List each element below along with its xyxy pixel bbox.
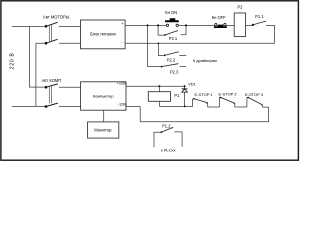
breaker QF1 pole2 blade (46, 39, 58, 43)
relay contact P1.2 dot (160, 131, 162, 133)
wire monitor stub (103, 110, 105, 122)
breaker QF2 pole2 blade (46, 103, 58, 106)
svg-text:+12В: +12В (117, 80, 127, 85)
switch E-STOP 2 pivot dot (220, 97, 222, 99)
relay contact P1.1 dot (252, 24, 254, 26)
svg-text:P2: P2 (237, 5, 243, 10)
relay contact P1.2 right terminal (174, 132, 182, 147)
relay contact P2.2 blade (165, 52, 179, 56)
breaker QF1 pole1 contact dot (45, 25, 48, 28)
wire computer -12V to return (126, 105, 140, 107)
border frame (1, 1, 299, 160)
svg-text:P2.1: P2.1 (169, 36, 178, 41)
svg-text:P1.2: P1.2 (162, 124, 171, 129)
relay contact P1.2 left terminal (154, 132, 160, 147)
relay contact P2.1 blade (165, 30, 178, 35)
svg-text:P2.3: P2.3 (170, 70, 179, 75)
junction node plus-rail / P2.1 left (157, 24, 159, 26)
wire lower breaker pole2 fixed to computer (59, 105, 81, 107)
breaker QF2 pole2 contact dot (45, 105, 48, 108)
breaker QF2 pole1 contact dot (45, 86, 48, 89)
wire upper breaker pole2 fixed to PSU (59, 42, 81, 44)
diode VD1 cathode bar (182, 88, 188, 90)
switch E-STOP 3 right post and rail (262, 105, 268, 107)
power supply box Блок питания (81, 20, 126, 49)
svg-text:E-STOP 2: E-STOP 2 (219, 92, 238, 97)
wire E-STOP return down and long bottom return (140, 106, 268, 121)
relay contact P1.2 blade (161, 127, 173, 132)
switch E-STOP 3 left post (247, 98, 248, 108)
wire tap L1 down to lower breaker pole1 (30, 27, 45, 88)
diode VD1 axis wire (184, 86, 186, 106)
wire P2.2 feed from minus rail (158, 43, 163, 55)
switch E-STOP 1 right post and rail (208, 103, 220, 107)
monitor box Монитор (88, 122, 119, 138)
junction node diode top (184, 85, 186, 87)
svg-text:220 В: 220 В (9, 52, 15, 69)
wire P2.3 feed from plus rail (148, 25, 161, 66)
svg-text:Блок питания: Блок питания (90, 32, 116, 37)
computer box Компьютер (81, 82, 126, 110)
wire tap L2 up to upper breaker pole2 (36, 43, 45, 106)
svg-text:P1.1: P1.1 (255, 14, 264, 19)
breaker QF1 pole1 blade (46, 22, 58, 26)
svg-text:-12В: -12В (118, 102, 127, 107)
wire P2.1 branch right post (181, 25, 187, 34)
relay contact P2.3 fixed stub (180, 65, 186, 67)
wire lower breaker pole1 fixed to computer (59, 86, 81, 88)
switch E-STOP 2 right post and rail (235, 103, 247, 107)
relay contact P2.3 dot (161, 66, 163, 68)
relay contact P2.1 dot (164, 34, 166, 36)
svg-text:P1: P1 (174, 93, 180, 98)
svg-text:Авт КОМП: Авт КОМП (42, 78, 62, 83)
relay coil P1 box (148, 92, 170, 102)
svg-text:E-STOP 1: E-STOP 1 (195, 92, 214, 97)
svg-text:к PLCхх: к PLCхх (161, 147, 176, 152)
wire PSU plus output rail row25 (125, 24, 234, 26)
switch E-STOP 1 pivot dot (193, 98, 195, 100)
relay coil P2 box (234, 13, 245, 37)
wire P1 coil top stub (158, 86, 160, 92)
junction node plus-rail / P2.1 right (185, 24, 187, 26)
junction node minus-rail / P2.2 feed (158, 43, 160, 45)
wire P1 coil bottom rail to E-STOP chain (159, 99, 192, 107)
pushbutton Кн OFF bridge and cap (214, 25, 227, 28)
breaker QF1 linkage (49, 25, 51, 42)
svg-text:Монитор: Монитор (94, 128, 112, 133)
junction node diode bottom (184, 106, 186, 108)
pushbutton Кн OFF contact circles (215, 23, 217, 25)
breaker QF2 pole1 blade (46, 84, 58, 87)
relay contact P2.2 dot (164, 55, 166, 57)
switch E-STOP 3 blade (248, 98, 262, 106)
svg-text:Кн OFF: Кн OFF (212, 15, 226, 20)
wire P2 coil to P1.1 (246, 24, 253, 26)
diode VD1 triangle (182, 89, 188, 92)
svg-text:E-STOP 3: E-STOP 3 (245, 92, 264, 97)
wire P1.1 fixed contact and return to minus rail (266, 25, 275, 43)
breaker QF1 pole2 contact dot (45, 42, 48, 45)
switch E-STOP 3 pivot dot (247, 97, 249, 99)
switch E-STOP 2 blade (221, 98, 235, 104)
junction node plus-rail / P2.3 feed (147, 24, 149, 26)
wire mains L1 top (12, 26, 45, 28)
svg-text:Компьютер: Компьютер (93, 93, 114, 98)
svg-text:P2.2: P2.2 (167, 58, 176, 63)
svg-text:К драйверам: К драйверам (193, 58, 217, 63)
junction node coil P1 top (158, 85, 160, 87)
relay contact P1.1 blade (253, 21, 266, 25)
wire upper breaker pole1 fixed to PSU (59, 26, 81, 28)
breaker QF2 linkage (49, 86, 51, 104)
pushbutton Кн ON cap (165, 18, 179, 22)
relay contact P2.2 fixed stub (179, 54, 186, 56)
wire PSU minus output rail row43 (125, 42, 275, 44)
relay contact P2.3 blade (162, 63, 179, 66)
svg-text:VD1: VD1 (188, 81, 197, 86)
pushbutton Кн ON contact circles (166, 24, 168, 26)
switch E-STOP 2 left post (219, 98, 220, 108)
wire P2.1 branch left post (158, 25, 164, 35)
svg-text:Кн ON: Кн ON (165, 10, 177, 15)
wire mains L2 bottom (12, 105, 45, 107)
wire P1 coil bottom stub (158, 101, 160, 106)
switch E-STOP 1 blade (194, 99, 208, 104)
wire +12V rail to diode (126, 85, 185, 87)
svg-text:Авт МОТОРЫ: Авт МОТОРЫ (43, 15, 70, 20)
